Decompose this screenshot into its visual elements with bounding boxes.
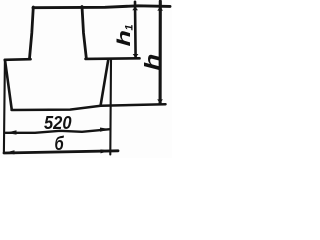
svg-text:б: б [55,133,65,154]
svg-text:520: 520 [44,113,72,133]
svg-text:h: h [114,30,134,46]
svg-text:1: 1 [124,24,136,30]
svg-text:h: h [142,54,164,71]
